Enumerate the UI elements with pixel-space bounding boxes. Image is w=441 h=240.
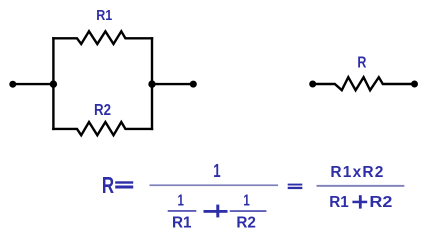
- wire right vertical: [151, 38, 153, 129]
- svg-text:1: 1: [243, 192, 249, 209]
- svg-text:R1xR2: R1xR2: [330, 164, 383, 181]
- svg-text:R: R: [102, 172, 114, 198]
- plus sign (denominator): [352, 201, 367, 204]
- svg-text:1: 1: [178, 192, 184, 209]
- svg-text:R1: R1: [172, 215, 192, 229]
- svg-text:R: R: [357, 55, 366, 72]
- terminal dot right (parallel circuit): [190, 81, 197, 88]
- svg-text:R2: R2: [369, 194, 392, 211]
- fraction bar (right fraction): [317, 185, 405, 187]
- node A junction dot left: [50, 80, 57, 87]
- equals sign after R: [115, 181, 133, 183]
- node B junction dot right: [148, 80, 155, 87]
- fraction bar 1/R1: [168, 210, 197, 212]
- fraction bar 1/R2: [230, 210, 267, 212]
- wire left vertical: [52, 38, 54, 129]
- svg-text:R1: R1: [329, 194, 349, 211]
- resistor R with leads: [313, 77, 415, 90]
- plus sign (large, between small fractions): [204, 210, 228, 213]
- terminal dot right (equivalent circuit): [411, 81, 418, 88]
- equals sign (middle): [288, 184, 303, 186]
- svg-text:1: 1: [213, 160, 220, 181]
- resistor R2: [53, 122, 152, 135]
- resistor R1: [53, 31, 152, 44]
- svg-text:R1: R1: [96, 7, 112, 24]
- main fraction bar: [150, 184, 279, 186]
- terminal dot left (equivalent circuit): [309, 81, 316, 88]
- terminal dot left (parallel circuit): [9, 81, 16, 88]
- svg-text:R2: R2: [236, 215, 256, 229]
- wire left lead: [13, 83, 53, 85]
- svg-text:R2: R2: [94, 102, 111, 119]
- wire right lead: [152, 83, 193, 85]
